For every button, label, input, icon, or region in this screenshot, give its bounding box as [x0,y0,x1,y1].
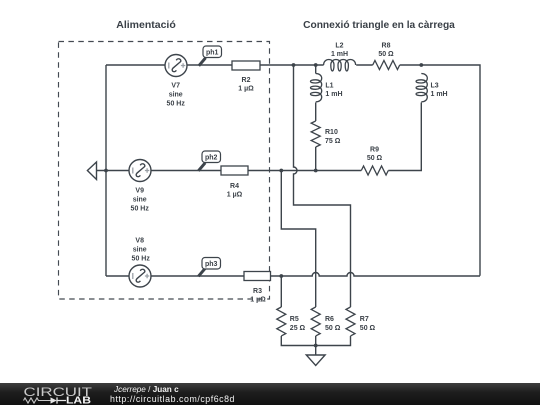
wire: bottom phase3 rail y=276 with hops over x=315.7 and x=350.5 [271,273,481,277]
node: bus/terminal junction [104,169,108,173]
resistor R10 (75 Ω, zigzag vertical) [311,121,320,147]
footer: circuit url [110,394,235,404]
ground symbol [306,346,325,366]
svg-text:R9: R9 [370,147,379,154]
wire: V7 right to R2 [187,64,232,66]
svg-text:50 Ω: 50 Ω [325,325,341,332]
svg-text:R7: R7 [360,316,369,323]
wire: R8 to node C [400,64,422,66]
svg-text:V7: V7 [171,82,180,89]
svg-text:1 mH: 1 mH [331,51,348,58]
svg-text:50 Ω: 50 Ω [378,51,394,58]
inductor L2 (1 mH, horizontal) [324,60,356,71]
svg-text:V9: V9 [135,187,144,194]
probe ph2 (label box and pointer) [198,151,220,171]
source V9 (sine 50 Hz) [129,160,151,182]
probe ph1 (label box and pointer) [199,46,222,66]
resistor R9 (50 Ω, zigzag horizontal) [361,166,388,175]
svg-text:R2: R2 [242,77,251,84]
svg-text:sine: sine [133,247,147,254]
svg-text:Connexió triangle en la càrreg: Connexió triangle en la càrrega [303,20,455,31]
svg-text:V8: V8 [135,238,144,245]
node E (phase3 split) [279,274,283,278]
svg-text:R8: R8 [382,43,391,50]
wire: R2 to node A [260,64,294,66]
resistor R4 (box style, 1 µΩ) [221,166,248,175]
svg-text:L1: L1 [325,83,333,90]
svg-text:50 Hz: 50 Hz [167,100,186,107]
footer: author line [114,385,179,394]
wire: V9 lead from terminal/bus to V9 [97,170,130,172]
resistor R6 (50 Ω, zigzag vertical) [311,307,320,336]
svg-text:sine: sine [169,91,183,98]
svg-text:50 Ω: 50 Ω [367,155,383,162]
wire: node A down, hop over y=170.5, then to R7 column x=350.5 [294,65,351,307]
svg-text:50 Hz: 50 Hz [131,205,150,212]
svg-text:L2: L2 [335,43,343,50]
svg-text:ph1: ph1 [206,50,219,57]
node: R10 bottom junction [314,169,318,173]
svg-text:L3: L3 [431,83,439,90]
resistor R5 (25 Ω, zigzag vertical) [277,307,286,336]
svg-text:LAB: LAB [66,395,91,405]
source V8 (sine 50 Hz) [129,265,151,287]
wire: L1/R10 branch vertical x=315.7 [315,65,317,171]
probe ph3 (label box and pointer) [198,258,220,277]
wire: node E down to R5 [280,276,282,307]
node B (L1 top) [314,63,318,67]
svg-text:R4: R4 [230,183,239,190]
node A (phase1 split) [292,63,296,67]
svg-text:75 Ω: 75 Ω [325,138,341,145]
logo diode [51,397,57,403]
svg-text:1 µΩ: 1 µΩ [250,297,266,304]
svg-text:1 mH: 1 mH [325,91,342,98]
svg-text:Alimentació: Alimentació [116,19,176,31]
svg-text:1 µΩ: 1 µΩ [227,192,243,199]
wire: V8 right to R3 (ph3 tap) [152,275,245,277]
svg-text:ph2: ph2 [205,155,218,162]
wire: R4 to node D to R10-bottom node to R9 [248,170,361,172]
node D (phase2 split) [279,169,283,173]
svg-text:R3: R3 [253,288,262,295]
svg-text:ph3: ph3 [205,261,218,268]
svg-text:1 mH: 1 mH [431,91,448,98]
svg-text:25 Ω: 25 Ω [290,325,306,332]
resistor R3 (box style, 1 µΩ) [244,272,271,281]
wire: node D down to R6 column x=315.7 [281,171,315,308]
wire: left vertical bus x=106 from phase1 to phase3 [105,65,107,276]
node: ground junction [314,344,318,348]
wire: V9 right to R4 (ph2 tap) [152,170,222,172]
resistor R8 (50 Ω, zigzag horizontal) [373,61,400,70]
wire: V7 left lead from bus to V7 [106,64,165,66]
svg-text:sine: sine [133,196,147,203]
resistor R7 (50 Ω, zigzag vertical) [346,307,355,336]
svg-text:R6: R6 [325,316,334,323]
svg-text:50 Hz: 50 Hz [132,256,151,263]
terminal arrow (left output terminal) [87,162,96,180]
wire: V8 left lead from bus [106,275,129,277]
wire: bottom ground rail y=345.5 [281,336,350,346]
source V7 (sine 50 Hz) [165,55,187,77]
node C (L3 top / R8) [419,63,423,67]
wire: node A to L2 via node B [294,64,324,66]
svg-text:1 µΩ: 1 µΩ [238,86,254,93]
svg-text:R5: R5 [290,316,299,323]
wire: node C to top-right corner and down right side [421,65,480,276]
resistor R2 (box style, 1 µΩ) [232,61,260,70]
logo: CircuitLab [0,383,110,405]
svg-text:R10: R10 [325,129,338,136]
wire: R9 to L3 bottom [388,103,421,171]
svg-text:50 Ω: 50 Ω [360,325,376,332]
inductor L3 (1 mH, vertical) [416,74,427,102]
logo resistor zigzag [24,398,51,403]
inductor L1 (1 mH, vertical) [310,74,321,102]
enclosure: dashed box (Alimentació group) [59,42,270,300]
wire: L2 to R8 [356,64,373,66]
